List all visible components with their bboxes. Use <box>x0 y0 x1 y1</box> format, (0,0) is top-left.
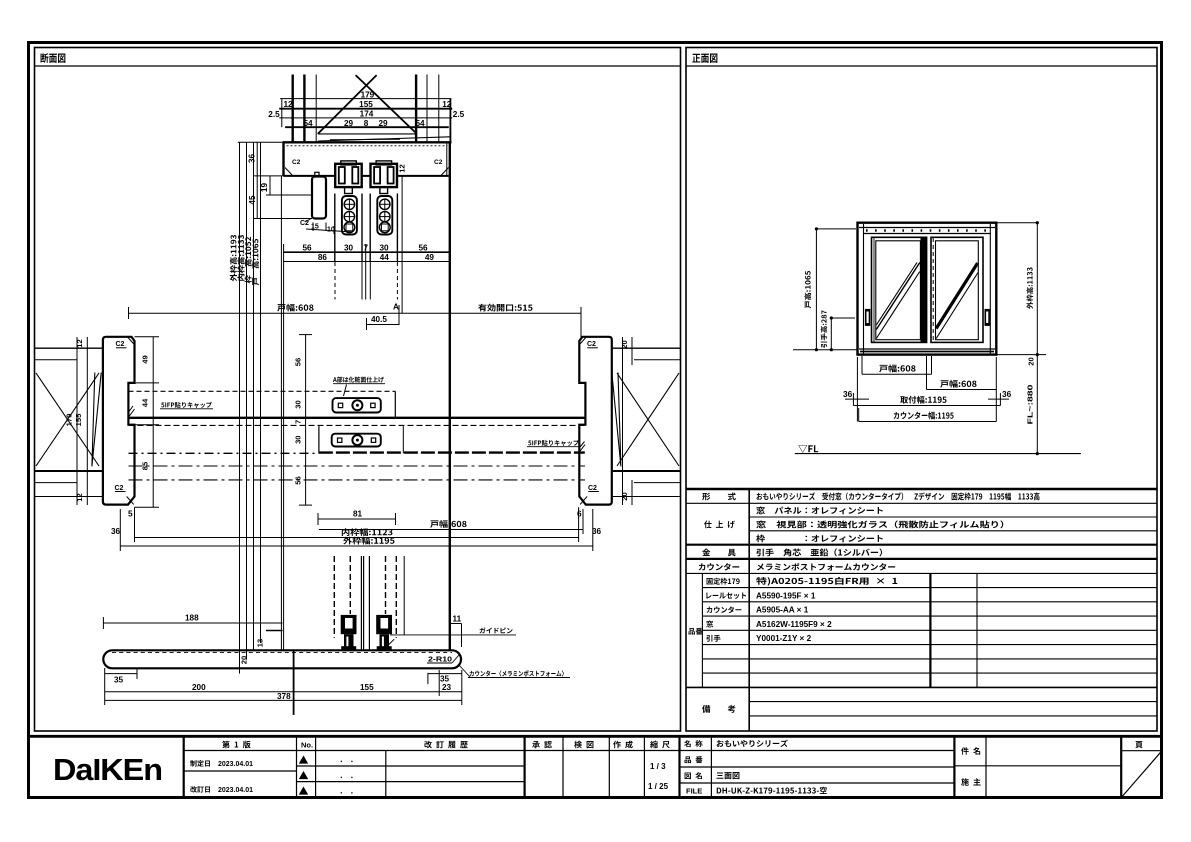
dim 11 <box>451 624 462 648</box>
rotated 12 at head <box>398 164 407 172</box>
svg-text:30: 30 <box>294 400 303 408</box>
svg-text:C2: C2 <box>587 341 596 348</box>
svg-text:13: 13 <box>256 639 265 647</box>
svg-text:C2: C2 <box>434 159 443 166</box>
svg-text:35: 35 <box>440 675 450 684</box>
jamb dim 49 44 85 <box>135 337 160 507</box>
dim sotohaba 1195 <box>853 405 1000 407</box>
top dim lines <box>279 99 452 128</box>
rotated 13 and 20 <box>240 639 265 664</box>
svg-text:378: 378 <box>277 692 291 701</box>
right panel border (front view panel) <box>686 48 1157 732</box>
svg-text:12: 12 <box>283 100 293 109</box>
svg-text:36: 36 <box>843 389 853 399</box>
door panel 2 section <box>370 194 397 263</box>
svg-text:179: 179 <box>361 90 375 99</box>
svg-text:8: 8 <box>364 119 369 128</box>
title block texts <box>190 740 1143 796</box>
svg-text:54: 54 <box>303 119 313 128</box>
counter slab <box>103 650 461 668</box>
svg-text:56: 56 <box>294 358 303 366</box>
svg-text:C2: C2 <box>292 159 301 166</box>
svg-text:FL~:880: FL~:880 <box>1026 385 1035 425</box>
dim counter haba 1195 <box>859 408 997 422</box>
left panel border (section view panel) <box>35 48 681 732</box>
svg-text:C2: C2 <box>300 220 309 227</box>
vert dim line 56 30 7 30 56 plan <box>299 335 312 506</box>
svg-text:20: 20 <box>240 656 249 664</box>
tall dimension chain lines <box>240 142 261 673</box>
svg-text:179: 179 <box>65 414 74 427</box>
lower dim lines 56 30 7 30 56 <box>281 176 449 650</box>
svg-text:35: 35 <box>114 676 124 685</box>
lock plate on bar2 <box>332 434 381 447</box>
svg-text:56: 56 <box>418 244 428 253</box>
svg-text:36: 36 <box>592 527 602 536</box>
dim towaba 608 second <box>927 356 997 422</box>
svg-text:30: 30 <box>294 435 303 443</box>
counter material leader label <box>459 665 570 678</box>
left wall lines <box>35 348 103 496</box>
svg-text:36: 36 <box>247 154 257 164</box>
svg-text:12: 12 <box>442 100 452 109</box>
guide pin 1 <box>341 615 357 650</box>
svg-text:7: 7 <box>364 244 369 253</box>
svg-text:C2: C2 <box>116 341 125 348</box>
svg-text:No.: No. <box>301 741 313 750</box>
svg-text:2023.04.01: 2023.04.01 <box>218 761 253 768</box>
roller assembly 2 <box>371 161 398 194</box>
door panel 1 section <box>335 194 362 263</box>
sliding bar 1 (rear panel plan) <box>129 391 586 418</box>
dim tokosa 1065 <box>815 227 856 351</box>
guide pin 2 <box>376 615 394 650</box>
dim 40.5 <box>367 318 400 330</box>
svg-text:10: 10 <box>327 227 335 234</box>
svg-text:30: 30 <box>379 244 389 253</box>
2-R10 label <box>428 655 452 664</box>
svg-text:15: 15 <box>311 224 319 231</box>
svg-text:49: 49 <box>141 355 150 363</box>
svg-text:49: 49 <box>425 253 435 262</box>
svg-text:44: 44 <box>380 253 390 262</box>
A-bu leader label <box>333 384 385 396</box>
svg-text:30: 30 <box>344 244 354 253</box>
svg-text:36: 36 <box>1002 389 1012 399</box>
right wall lines <box>612 348 681 496</box>
bar1 label 5IFP <box>161 402 212 408</box>
dim hikite 287 <box>793 316 857 351</box>
handle left <box>865 309 870 326</box>
head section body <box>238 142 452 650</box>
svg-text:155: 155 <box>359 100 373 109</box>
svg-text:20: 20 <box>1027 357 1036 365</box>
left jamb block <box>103 337 135 505</box>
svg-text:20: 20 <box>620 340 629 348</box>
cap part 15x10 <box>305 172 352 234</box>
svg-text:A5905-AA × 1: A5905-AA × 1 <box>756 606 809 615</box>
label shomenzu <box>692 54 717 63</box>
bar2 label 5IFP <box>528 440 579 446</box>
sliding panel right <box>931 237 983 342</box>
C2 labels head <box>292 159 443 166</box>
counter bottom dims <box>105 650 462 715</box>
center lines below bars <box>129 466 586 480</box>
wall break X above <box>318 75 450 141</box>
svg-text:44: 44 <box>141 398 150 407</box>
left wall break X <box>36 373 101 467</box>
svg-text:6: 6 <box>577 510 582 519</box>
dim towaba 608 first <box>862 356 932 374</box>
svg-text:A5162W-1195F9 × 2: A5162W-1195F9 × 2 <box>756 620 832 629</box>
svg-text:11: 11 <box>453 615 462 624</box>
svg-text:86: 86 <box>318 253 328 262</box>
svg-text:12: 12 <box>75 339 84 347</box>
dim sotowaku 1133 right <box>997 221 1046 455</box>
rail mid lines <box>129 424 586 426</box>
svg-text:12: 12 <box>398 164 407 172</box>
svg-text:29: 29 <box>378 119 388 128</box>
guide pin leader + label <box>390 634 516 636</box>
FL line <box>795 453 1081 455</box>
svg-text:29: 29 <box>344 119 354 128</box>
svg-text:36: 36 <box>111 527 121 536</box>
wall studs above head <box>282 75 451 143</box>
dim 36 pair <box>845 357 1009 422</box>
svg-text:2.5: 2.5 <box>268 110 280 119</box>
svg-text:2023.04.01: 2023.04.01 <box>218 787 253 794</box>
right 20 dims <box>623 337 633 505</box>
svg-text:FILE: FILE <box>686 787 702 796</box>
dim 188 <box>103 617 282 629</box>
svg-text:81: 81 <box>353 510 363 519</box>
svg-text:DaIKEn: DaIKEn <box>53 752 162 787</box>
svg-text:54: 54 <box>415 119 425 128</box>
spec table texts <box>689 492 1040 712</box>
sliding bar 2 (front panel plan) <box>129 426 586 453</box>
left 12 179 155 dims <box>77 337 87 505</box>
svg-text:174: 174 <box>360 110 374 119</box>
svg-text:56: 56 <box>294 476 303 484</box>
glazing diagonal left <box>876 263 920 339</box>
svg-text:A5590-195F × 1: A5590-195F × 1 <box>756 591 816 600</box>
top dim texts <box>268 90 464 128</box>
glazing diagonal right <box>936 263 978 339</box>
right wall break X <box>612 373 679 467</box>
svg-text:5: 5 <box>128 510 133 519</box>
spec table grid <box>686 489 1157 731</box>
svg-text:7: 7 <box>294 420 303 424</box>
right jamb block <box>579 337 612 505</box>
sliding panel left <box>872 237 927 342</box>
svg-text:C2: C2 <box>115 485 124 492</box>
svg-text:40.5: 40.5 <box>371 315 387 324</box>
window outer frame <box>858 223 997 355</box>
bottom dims of plan <box>120 507 593 551</box>
svg-text:200: 200 <box>192 683 206 692</box>
panel verticals above counter <box>334 556 404 650</box>
svg-text:2.5: 2.5 <box>453 110 465 119</box>
DAIKEN logo <box>53 752 162 787</box>
svg-text:2-R10: 2-R10 <box>428 655 452 664</box>
svg-text:C2: C2 <box>588 485 597 492</box>
FL marker <box>798 445 818 453</box>
top dim line towaba608 / yuko515 <box>129 305 582 337</box>
svg-text:45: 45 <box>247 195 257 205</box>
svg-text:1 / 25: 1 / 25 <box>648 782 669 791</box>
roller assembly 1 <box>335 161 362 194</box>
svg-text:12: 12 <box>75 493 84 501</box>
title block grid <box>27 736 1162 797</box>
svg-text:A: A <box>393 303 399 312</box>
svg-text:188: 188 <box>185 614 199 623</box>
svg-text:56: 56 <box>302 244 312 253</box>
svg-text:Y0001-Z1Y × 2: Y0001-Z1Y × 2 <box>756 634 812 643</box>
svg-text:1 / 3: 1 / 3 <box>650 762 666 771</box>
svg-text:23: 23 <box>442 683 452 692</box>
svg-text:155: 155 <box>360 683 374 692</box>
svg-text:20: 20 <box>620 492 629 500</box>
svg-text:155: 155 <box>74 413 83 426</box>
handle right <box>985 309 990 326</box>
lock plate on bar1 <box>333 398 381 412</box>
chain line labels rotated <box>230 235 259 285</box>
label danmenzu <box>41 53 66 63</box>
dim 36 19 45 left of head <box>253 142 312 218</box>
